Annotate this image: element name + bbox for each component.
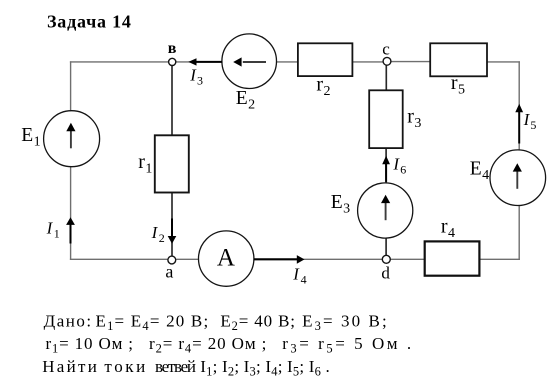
wire top-left horizontal (corner to node в) bbox=[70, 61, 168, 63]
node c bbox=[383, 57, 391, 65]
label E2 bbox=[236, 88, 255, 112]
svg-text:E: E bbox=[470, 159, 482, 180]
label node в bbox=[168, 40, 177, 57]
label r5 bbox=[451, 72, 465, 98]
svg-text:3: 3 bbox=[197, 74, 203, 88]
svg-text:a: a bbox=[165, 262, 173, 282]
label I5 bbox=[523, 110, 537, 132]
given data text line 2 bbox=[46, 334, 414, 356]
wire left vertical lower (E1 bottom to corner) bbox=[70, 167, 72, 260]
label I1 bbox=[46, 219, 60, 241]
svg-text:2: 2 bbox=[248, 97, 255, 112]
wire top-right horizontal (r5 to corner) bbox=[487, 61, 520, 63]
resistor r3 bbox=[369, 90, 403, 148]
svg-text:Е1= Е4= 20 В;: Е1= Е4= 20 В; bbox=[96, 312, 210, 334]
svg-text:r: r bbox=[451, 72, 458, 94]
wire r3 down to E3 (carries I6) bbox=[385, 148, 387, 183]
svg-text:3: 3 bbox=[343, 201, 350, 216]
wire node a to ammeter bbox=[176, 258, 199, 260]
node d bbox=[382, 255, 390, 263]
svg-text:1: 1 bbox=[145, 162, 152, 177]
svg-text:4: 4 bbox=[301, 273, 307, 287]
label E4 bbox=[470, 159, 489, 183]
label E3 bbox=[331, 192, 350, 216]
svg-text:5: 5 bbox=[530, 118, 536, 132]
svg-text:r2= r4= 20 Ом ;: r2= r4= 20 Ом ; bbox=[149, 334, 267, 356]
svg-text:E: E bbox=[331, 192, 343, 213]
resistor r4 bbox=[425, 241, 480, 275]
svg-text:I1; I2; I3; I4; I5; I6 .: I1; I2; I3; I4; I5; I6 . bbox=[200, 357, 330, 379]
wire r2 to node c bbox=[352, 61, 383, 63]
label node a bbox=[165, 262, 173, 282]
node a bbox=[168, 256, 176, 264]
wire E2 to r2 bbox=[276, 61, 298, 63]
svg-text:r: r bbox=[138, 151, 145, 173]
wire right vertical lower (corner to E4 bottom) bbox=[518, 206, 520, 260]
wire node c to r5 bbox=[391, 61, 430, 63]
svg-text:1: 1 bbox=[54, 227, 60, 241]
wire node d to r4 bbox=[390, 258, 424, 260]
label I4 bbox=[292, 265, 306, 287]
label r1 bbox=[138, 151, 152, 177]
ammeter A bbox=[199, 231, 254, 286]
source E4 bbox=[490, 150, 546, 206]
wire right vertical upper (E4 top to corner, carries I5) bbox=[518, 61, 520, 150]
svg-text:1: 1 bbox=[34, 134, 41, 149]
label I3 bbox=[189, 66, 203, 88]
wire node c down to r3 bbox=[385, 65, 387, 90]
current arrow I4 bbox=[254, 255, 305, 264]
svg-text:E: E bbox=[21, 125, 33, 146]
label node d bbox=[381, 263, 390, 282]
given data text line 1 bbox=[44, 312, 389, 334]
label I6 bbox=[392, 155, 406, 177]
svg-text:Е2= 40 В;: Е2= 40 В; bbox=[220, 312, 295, 334]
wire E3 down to node d bbox=[385, 238, 387, 255]
source E2 bbox=[222, 34, 277, 89]
svg-text:I: I bbox=[392, 155, 400, 174]
current arrow I2 bbox=[168, 219, 177, 244]
svg-text:токи: токи bbox=[104, 357, 147, 376]
wire left vertical upper (corner to E1 top) bbox=[70, 61, 72, 111]
svg-text:I: I bbox=[292, 265, 300, 284]
svg-text:r: r bbox=[316, 74, 323, 96]
svg-text:5: 5 bbox=[458, 82, 465, 97]
svg-text:Дано:: Дано: bbox=[44, 312, 93, 331]
label node c bbox=[382, 40, 390, 59]
svg-text:r: r bbox=[441, 216, 448, 238]
wire r4 to bottom-right corner bbox=[479, 258, 520, 260]
wire node в down to r1 bbox=[171, 66, 173, 136]
svg-text:I: I bbox=[523, 110, 531, 129]
title Задача 14 bbox=[47, 12, 132, 32]
svg-text:r: r bbox=[407, 106, 414, 128]
svg-text:в: в bbox=[168, 40, 177, 57]
svg-text:r1= 10 Ом ;: r1= 10 Ом ; bbox=[46, 334, 134, 356]
svg-text:c: c bbox=[382, 40, 390, 59]
source E3 bbox=[358, 183, 413, 238]
resistor r1 bbox=[155, 135, 189, 192]
label r4 bbox=[441, 216, 455, 242]
current arrow I3 bbox=[188, 58, 222, 65]
svg-text:2: 2 bbox=[324, 84, 331, 99]
svg-text:2: 2 bbox=[159, 231, 165, 245]
wire node в to E2 (carries I3) bbox=[176, 61, 223, 63]
current arrow I5 bbox=[515, 104, 523, 144]
svg-text:E: E bbox=[236, 88, 248, 109]
svg-text:Е3= 30 В;: Е3= 30 В; bbox=[302, 312, 389, 334]
svg-text:3: 3 bbox=[414, 116, 421, 131]
wire r1 down to node a (carries I2) bbox=[171, 193, 173, 257]
wire bottom-left horizontal (corner to node a) bbox=[70, 258, 168, 260]
resistor r5 bbox=[430, 43, 487, 76]
svg-text:I: I bbox=[189, 66, 197, 85]
wire ammeter to node d bbox=[254, 258, 382, 260]
svg-text:Найти: Найти bbox=[42, 357, 99, 376]
svg-text:I: I bbox=[46, 219, 54, 238]
current arrow I6 bbox=[382, 156, 390, 182]
svg-text:4: 4 bbox=[482, 168, 489, 183]
svg-text:ветвей: ветвей bbox=[155, 357, 196, 376]
svg-text:d: d bbox=[381, 263, 390, 282]
svg-text:I: I bbox=[151, 223, 159, 242]
svg-text:r3= r5= 5 Ом .: r3= r5= 5 Ом . bbox=[282, 334, 414, 356]
source E1 bbox=[44, 111, 100, 167]
current arrow I1 bbox=[66, 217, 75, 243]
node в bbox=[169, 58, 176, 65]
resistor r2 bbox=[298, 43, 353, 76]
svg-text:Задача 14: Задача 14 bbox=[47, 12, 132, 32]
label I2 bbox=[151, 223, 165, 245]
svg-text:A: A bbox=[217, 245, 235, 272]
label r2 bbox=[316, 74, 330, 100]
label r3 bbox=[407, 106, 421, 132]
svg-text:6: 6 bbox=[400, 163, 406, 177]
task text line 3 bbox=[42, 357, 330, 379]
label E1 bbox=[21, 125, 40, 149]
svg-text:4: 4 bbox=[448, 226, 455, 241]
